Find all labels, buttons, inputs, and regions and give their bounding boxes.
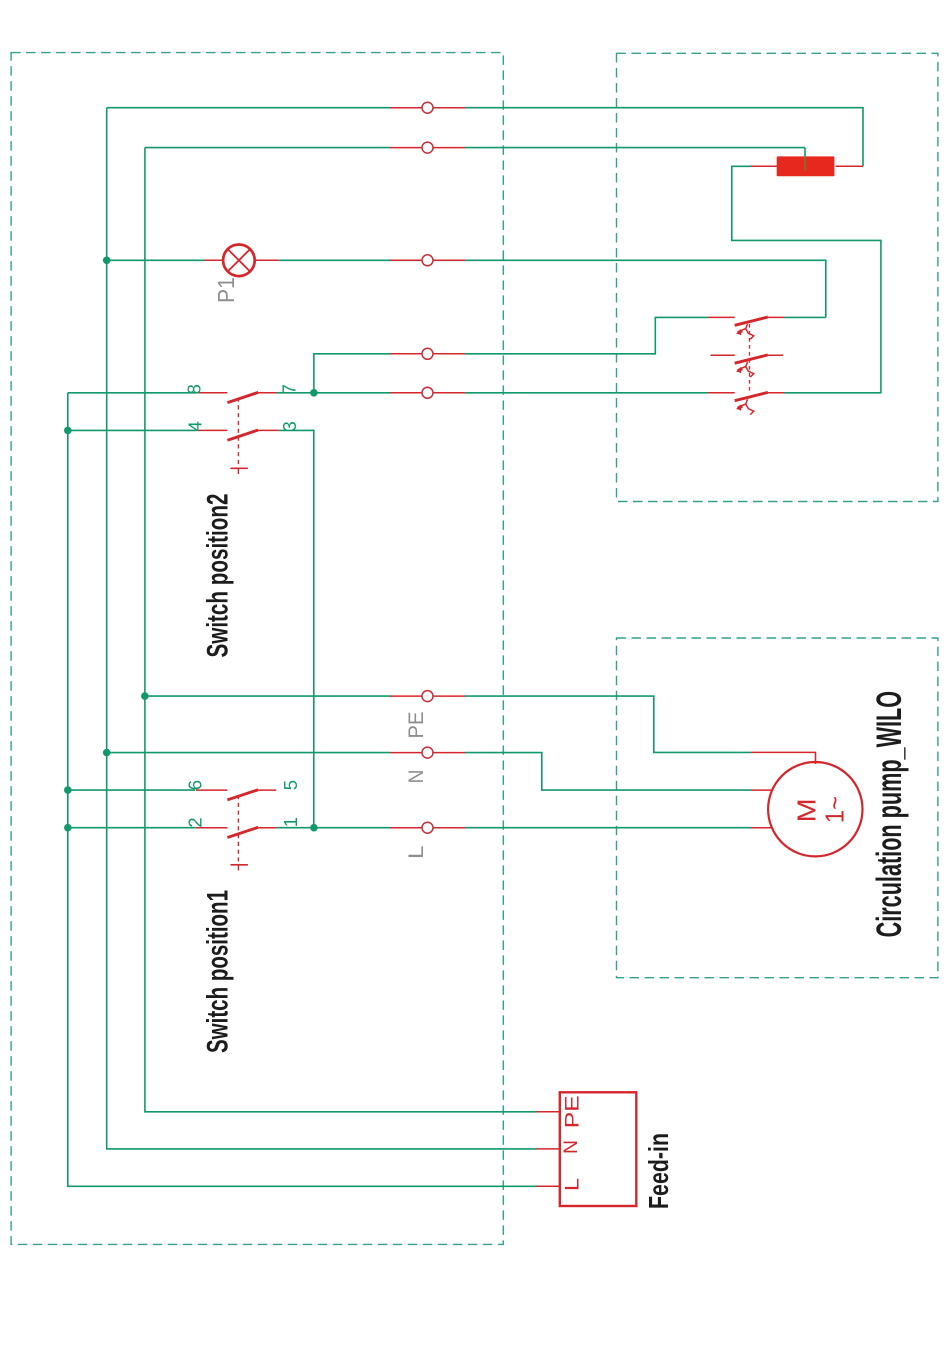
svg-text:1: 1 bbox=[280, 817, 301, 827]
svg-text:Switch position1: Switch position1 bbox=[202, 890, 235, 1053]
wire pin7 t5 line to contact C bbox=[277, 392, 391, 394]
svg-text:5: 5 bbox=[280, 780, 301, 790]
svg-text:8: 8 bbox=[184, 384, 205, 394]
terminal circle t3 bbox=[422, 255, 433, 266]
svg-text:6: 6 bbox=[184, 780, 205, 790]
thermal mechanical link bbox=[749, 324, 751, 392]
terminal t4 bbox=[390, 353, 465, 355]
terminal t2 bbox=[390, 147, 465, 149]
switch position2 contact 8-7 bbox=[196, 392, 277, 402]
svg-text:PE: PE bbox=[563, 1095, 584, 1128]
node PE terminal bbox=[141, 692, 149, 700]
terminal circle t2 bbox=[422, 142, 433, 153]
wire pin3 to L line bbox=[279, 430, 314, 827]
heater element (red block) bbox=[751, 148, 863, 177]
node pin1/L bbox=[310, 824, 318, 832]
thermal contact B bbox=[711, 355, 784, 377]
terminal t3 bbox=[390, 259, 465, 261]
terminal t1 bbox=[390, 107, 465, 109]
node pin7 bbox=[310, 389, 318, 397]
wire pin8 bbox=[68, 392, 196, 394]
svg-text:7: 7 bbox=[278, 384, 299, 394]
wire lamp line bbox=[107, 259, 205, 261]
wire L line bbox=[68, 827, 196, 829]
junction dots bbox=[64, 257, 318, 832]
terminal circle t5 bbox=[422, 387, 433, 398]
svg-text:3: 3 bbox=[279, 421, 300, 431]
svg-text:PE: PE bbox=[405, 712, 428, 739]
folio dashed box 2 (relay box) bbox=[617, 53, 938, 501]
wire PE line to motor bbox=[145, 695, 390, 697]
switch position2 contact 4-3 bbox=[196, 430, 279, 440]
terminal circle t1 bbox=[422, 102, 433, 113]
svg-text:4: 4 bbox=[184, 421, 205, 431]
wire contact C right to heater left bbox=[732, 166, 881, 392]
svg-text:P1: P1 bbox=[213, 277, 239, 303]
node N terminal bbox=[103, 749, 111, 757]
node pin4/L bbox=[64, 427, 72, 435]
switch position1 contact 2-1 bbox=[196, 827, 277, 837]
terminal circle tL bbox=[422, 822, 433, 833]
svg-text:2: 2 bbox=[184, 817, 205, 827]
folio dashed box 3 (pump box) bbox=[617, 638, 938, 978]
wire PE bus vertical bbox=[145, 148, 537, 1112]
node lamp/N bbox=[103, 257, 111, 265]
thermal contact C bbox=[708, 392, 784, 414]
thermal contact A bbox=[708, 317, 784, 339]
lamp P1 bbox=[205, 244, 279, 276]
svg-text:L: L bbox=[405, 846, 428, 860]
switch position1 contact 6-5 bbox=[196, 790, 276, 800]
terminal tL bbox=[390, 827, 465, 829]
terminal tPE bbox=[390, 695, 465, 697]
switch position2 mechanical link bbox=[230, 398, 248, 475]
svg-text:M: M bbox=[791, 798, 821, 822]
wire N line to motor bbox=[107, 752, 390, 754]
wire contact A right to lamp bbox=[784, 316, 826, 318]
terminal circle tPE bbox=[422, 691, 433, 702]
switch position1 mechanical link bbox=[230, 795, 248, 871]
wire pin4 bbox=[68, 429, 196, 431]
terminal t5 bbox=[390, 392, 465, 394]
node L line bbox=[64, 824, 72, 832]
svg-text:Switch position2: Switch position2 bbox=[202, 494, 235, 658]
svg-text:N: N bbox=[405, 770, 428, 784]
wire N bus vertical bbox=[107, 108, 537, 1149]
wire t1 line to heater right bbox=[107, 107, 390, 109]
svg-text:L: L bbox=[563, 1178, 584, 1191]
wires green bbox=[68, 108, 881, 1187]
svg-text:Circulation pump_WILO: Circulation pump_WILO bbox=[870, 691, 909, 938]
wire pin6 bbox=[68, 789, 195, 791]
svg-text:N: N bbox=[561, 1140, 582, 1154]
terminals X1..X8 (red stubs + circles) bbox=[390, 108, 465, 828]
svg-text:Feed-in: Feed-in bbox=[643, 1133, 674, 1209]
terminal tN bbox=[390, 752, 465, 754]
wire t4 line to contact A bbox=[314, 354, 390, 393]
feed-in terminal block bbox=[537, 1092, 637, 1206]
terminal circle tN bbox=[422, 747, 433, 758]
wire L bus vertical bbox=[68, 393, 537, 1187]
wire t2 line to heater top bbox=[145, 147, 390, 149]
svg-text:1~: 1~ bbox=[820, 796, 850, 823]
motor M1 bbox=[751, 752, 863, 856]
terminal circle t4 bbox=[422, 348, 433, 359]
node pin6/L bbox=[64, 786, 72, 794]
